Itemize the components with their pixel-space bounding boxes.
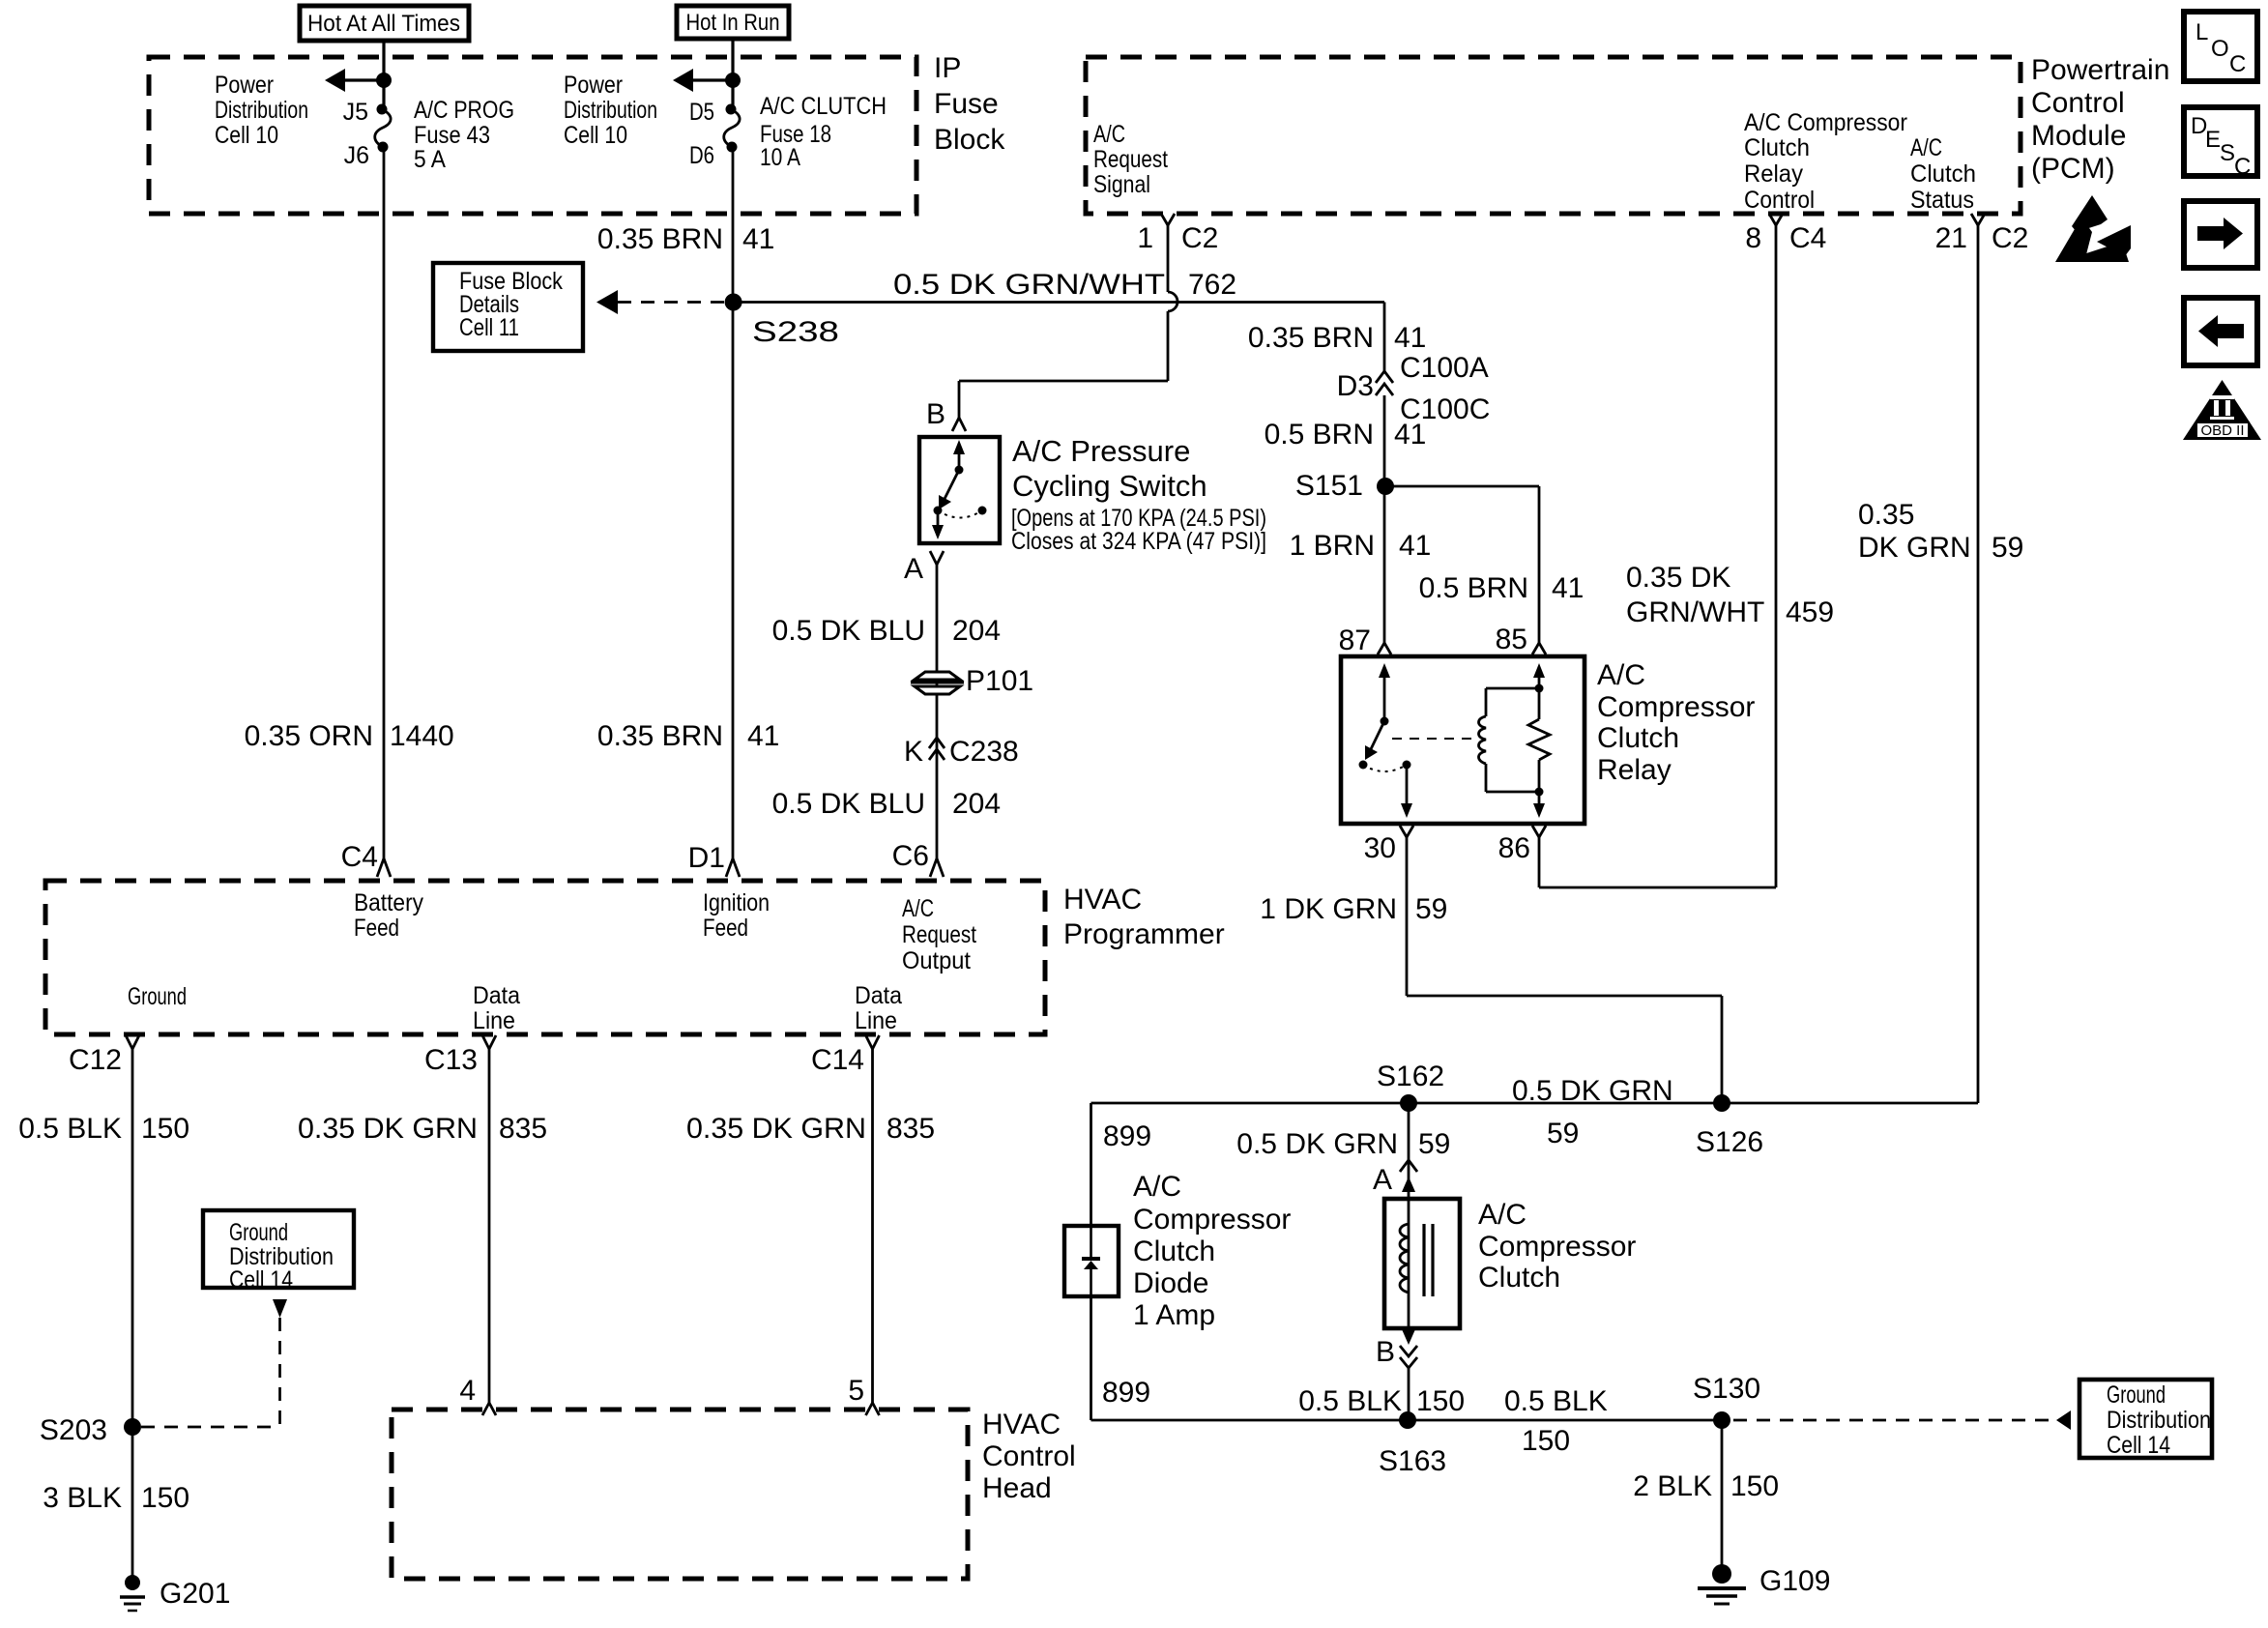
svg-text:1: 1 <box>1137 222 1153 254</box>
svg-text:S151: S151 <box>1295 470 1363 502</box>
svg-text:C: C <box>2229 51 2246 77</box>
svg-text:Programmer: Programmer <box>1063 918 1225 950</box>
svg-text:0.5 BRN: 0.5 BRN <box>1419 572 1528 604</box>
svg-text:S238: S238 <box>752 316 839 348</box>
svg-text:Cycling Switch: Cycling Switch <box>1012 469 1207 503</box>
wire PCM pin1 C2 A/C request signal down with hop over S238 wire <box>959 225 1178 418</box>
connector B arrow and chevrons below clutch <box>1376 1329 1417 1420</box>
pin 8 C4 labels <box>1745 222 1826 254</box>
relay label <box>1597 659 1755 786</box>
PCM name label <box>2031 54 2169 185</box>
svg-text:Request: Request <box>1093 146 1168 173</box>
svg-text:A/C: A/C <box>1597 659 1645 691</box>
A/C Compressor Clutch Diode box <box>1064 1226 1119 1296</box>
wire label 0.5 BRN 41 <box>1265 419 1427 451</box>
node S162 <box>1400 1094 1417 1112</box>
icon DESC box <box>2184 107 2257 180</box>
wire label 3 BLK 150 <box>43 1482 189 1514</box>
svg-text:41: 41 <box>1394 419 1426 451</box>
wire bottom ground bus (0.5 BLK 150) <box>1091 1419 1723 1422</box>
svg-text:B: B <box>926 398 945 430</box>
Power Distribution Cell 10 label (right) <box>564 72 657 149</box>
pin 21 C2 labels <box>1935 222 2029 254</box>
relay pin 86 fork <box>1532 826 1546 837</box>
svg-text:S203: S203 <box>40 1414 107 1446</box>
svg-text:1 Amp: 1 Amp <box>1133 1299 1215 1331</box>
svg-text:41: 41 <box>742 223 774 255</box>
svg-text:86: 86 <box>1498 832 1530 864</box>
wire PCM pin 21 C2 down (0.35 DK GRN 59) <box>1977 225 1980 1103</box>
svg-text:C12: C12 <box>69 1044 122 1076</box>
node S126 <box>1713 1094 1730 1112</box>
svg-text:A/C: A/C <box>1478 1199 1527 1231</box>
svg-text:899: 899 <box>1103 1120 1151 1152</box>
wire 41 from C100 down to S151 <box>1383 395 1386 486</box>
svg-text:0.5 BLK: 0.5 BLK <box>1504 1385 1608 1417</box>
wire pressure switch A down to C6 (0.5 DK BLU 204) <box>936 565 939 858</box>
svg-text:A/C Pressure: A/C Pressure <box>1012 434 1190 468</box>
svg-text:0.35 BRN: 0.35 BRN <box>1248 322 1374 354</box>
svg-text:Power: Power <box>215 72 274 99</box>
svg-text:Compressor: Compressor <box>1133 1204 1291 1236</box>
svg-text:Cell 14: Cell 14 <box>229 1266 293 1294</box>
wire label 0.5 DK GRN 59 (bus) <box>1512 1075 1673 1149</box>
svg-text:J5: J5 <box>343 99 368 126</box>
wire 41 from S238 junction down to D3 <box>1383 303 1386 373</box>
relay resistor <box>1528 663 1550 818</box>
svg-text:0.5 BLK: 0.5 BLK <box>18 1113 122 1145</box>
A/C Compressor Clutch Relay box <box>1341 656 1585 824</box>
svg-text:835: 835 <box>499 1113 547 1145</box>
node S203 <box>124 1418 141 1436</box>
A/C Pressure Cycling Switch label <box>1011 434 1266 555</box>
wire label 0.35 BRN 41 (above S238) <box>597 223 774 255</box>
PCM A/C Request Signal label <box>1093 121 1168 198</box>
HVAC Control Head dashed box <box>392 1410 968 1579</box>
icon LOC box <box>2184 12 2257 81</box>
svg-text:(PCM): (PCM) <box>2031 153 2115 185</box>
svg-text:30: 30 <box>1364 832 1396 864</box>
svg-text:Distribution: Distribution <box>2107 1407 2211 1434</box>
svg-text:C: C <box>2234 154 2251 180</box>
node junction at right arrow <box>725 73 741 88</box>
wire from Hot In Run into fuse block <box>731 39 734 109</box>
svg-text:E: E <box>2205 127 2221 153</box>
svg-text:3 BLK: 3 BLK <box>43 1482 122 1514</box>
svg-text:835: 835 <box>887 1113 935 1145</box>
dashed reference arrow S238 to Fuse Block Details <box>596 290 724 314</box>
Fuse Block Details Cell 11 box <box>433 263 583 351</box>
svg-text:OBD II: OBD II <box>2200 422 2244 439</box>
svg-text:150: 150 <box>1730 1470 1779 1502</box>
wire label 0.5 DK BLU 204 (upper) <box>772 615 1001 647</box>
svg-text:204: 204 <box>952 788 1001 820</box>
HVAC Programmer pin function labels <box>354 889 423 942</box>
wire S130 down to G109 (2 BLK 150) <box>1721 1420 1724 1574</box>
svg-text:Closes at 324 KPA (47 PSI)]: Closes at 324 KPA (47 PSI)] <box>1011 528 1266 555</box>
svg-text:Feed: Feed <box>354 915 399 942</box>
svg-text:0.35 DK: 0.35 DK <box>1626 562 1730 594</box>
wire from Hot At All Times into fuse block <box>382 41 385 109</box>
node S151 <box>1377 478 1394 495</box>
svg-text:150: 150 <box>141 1482 189 1514</box>
svg-text:Ignition: Ignition <box>703 889 770 916</box>
svg-text:G201: G201 <box>160 1578 230 1610</box>
wire label 0.35 DK GRN 835 <box>298 1113 547 1145</box>
wire label 0.35 BRN 41 (below S238) <box>597 720 779 752</box>
wire label 2 BLK 150 <box>1633 1470 1779 1502</box>
pin 1 C2 connector fork <box>1161 214 1175 225</box>
svg-text:Fuse: Fuse <box>934 88 999 120</box>
svg-text:J6: J6 <box>344 142 369 169</box>
wire label 0.5 BLK 150 (left of S163) <box>1298 1385 1465 1417</box>
svg-text:41: 41 <box>1552 572 1584 604</box>
svg-text:41: 41 <box>1394 322 1426 354</box>
relay pin 87 fork <box>1378 643 1391 654</box>
svg-text:S130: S130 <box>1693 1373 1760 1405</box>
label box Hot At All Times <box>300 6 469 41</box>
Ground Distribution Cell 14 box (left) <box>203 1210 354 1294</box>
wire label 0.5 BLK 150 (right of S163) <box>1504 1385 1608 1457</box>
svg-text:Relay: Relay <box>1744 160 1803 188</box>
svg-text:Control: Control <box>2031 87 2125 119</box>
svg-text:O: O <box>2211 36 2229 62</box>
svg-text:59: 59 <box>1992 532 2023 564</box>
svg-text:Line: Line <box>473 1007 515 1034</box>
svg-text:G109: G109 <box>1759 1565 1830 1597</box>
svg-text:S126: S126 <box>1696 1126 1763 1158</box>
svg-text:Clutch: Clutch <box>1478 1262 1560 1294</box>
relay coil <box>1479 688 1540 792</box>
svg-text:A/C: A/C <box>1133 1171 1181 1203</box>
svg-text:0.5 DK GRN/WHT: 0.5 DK GRN/WHT <box>893 269 1165 301</box>
svg-text:2 BLK: 2 BLK <box>1633 1470 1712 1502</box>
wire label 0.5 BLK 150 <box>18 1113 189 1145</box>
A/C Pressure Cycling Switch box <box>919 437 1000 543</box>
svg-text:5: 5 <box>848 1375 864 1407</box>
svg-text:Request: Request <box>902 921 976 948</box>
svg-text:C13: C13 <box>424 1044 478 1076</box>
svg-text:Battery: Battery <box>354 889 423 916</box>
svg-text:0.35: 0.35 <box>1858 499 1914 531</box>
grommet P101 <box>911 665 1033 697</box>
svg-text:10 A: 10 A <box>760 144 800 171</box>
arrow to Power Distribution (left) <box>325 69 384 92</box>
ground G109 <box>1698 1564 1830 1604</box>
svg-text:Control: Control <box>1744 187 1815 214</box>
svg-text:Line: Line <box>855 1007 897 1034</box>
svg-text:0.35 ORN: 0.35 ORN <box>245 720 373 752</box>
svg-text:85: 85 <box>1496 624 1527 655</box>
svg-text:150: 150 <box>141 1113 189 1145</box>
wire S238 to pressure switch feed (horizontal) <box>734 301 1384 304</box>
svg-text:GRN/WHT: GRN/WHT <box>1626 596 1764 628</box>
dashed reference from S203 to Ground Distribution box <box>141 1299 287 1427</box>
relay switch contacts <box>1359 663 1413 818</box>
connector B fork at pressure switch <box>952 418 966 431</box>
svg-text:0.35 BRN: 0.35 BRN <box>597 720 723 752</box>
svg-text:Cell 11: Cell 11 <box>459 314 519 341</box>
svg-text:5 A: 5 A <box>414 146 446 173</box>
svg-text:A/C PROG: A/C PROG <box>414 97 514 124</box>
icon OBD II triangle <box>2183 380 2261 440</box>
wire label 0.5 BRN 41 (branch) <box>1419 572 1585 604</box>
IP Fuse Block dashed box <box>149 57 916 214</box>
svg-text:Power: Power <box>564 72 623 99</box>
svg-text:1440: 1440 <box>390 720 454 752</box>
Powertrain Control Module dashed box <box>1086 57 2021 214</box>
node S238 <box>725 294 742 311</box>
svg-text:4: 4 <box>459 1375 476 1407</box>
connector C12 fork below HVAC Programmer <box>126 1035 139 1049</box>
svg-text:Output: Output <box>902 947 971 974</box>
svg-text:HVAC: HVAC <box>1063 884 1142 916</box>
node junction at left arrow <box>376 73 392 88</box>
svg-text:Relay: Relay <box>1597 754 1672 786</box>
relay pin 85 fork <box>1532 643 1546 654</box>
wire C13 data line down to pin 4 (0.35 DK GRN 835) <box>488 1049 491 1403</box>
svg-text:150: 150 <box>1522 1425 1570 1457</box>
connector pin 5 fork into HVAC Control Head <box>866 1403 880 1415</box>
svg-text:8: 8 <box>1745 222 1761 254</box>
svg-text:0.5 DK BLU: 0.5 DK BLU <box>772 788 925 820</box>
svg-text:1 BRN: 1 BRN <box>1290 530 1375 562</box>
svg-text:0.35 BRN: 0.35 BRN <box>597 223 723 255</box>
svg-text:C238: C238 <box>949 736 1019 768</box>
svg-text:204: 204 <box>952 615 1001 647</box>
svg-text:Ground: Ground <box>229 1219 288 1246</box>
svg-text:Powertrain: Powertrain <box>2031 54 2169 86</box>
connector C14 fork below HVAC Programmer <box>866 1035 880 1049</box>
svg-text:A/C CLUTCH: A/C CLUTCH <box>760 93 887 120</box>
svg-text:C4: C4 <box>1789 222 1826 254</box>
pin 8 C4 connector fork <box>1769 214 1783 225</box>
wire label 0.35 DK GRN 835 (right) <box>686 1113 935 1145</box>
HVAC Programmer dashed box <box>45 881 1045 1034</box>
svg-text:41: 41 <box>747 720 779 752</box>
svg-text:A: A <box>904 553 923 585</box>
svg-text:A/C Compressor: A/C Compressor <box>1744 109 1907 136</box>
wire C12 ground down to G201 (0.5 BLK 150) <box>131 1049 134 1583</box>
ESD sensitivity symbol <box>2055 195 2131 262</box>
svg-text:S: S <box>2220 140 2235 166</box>
svg-text:Control: Control <box>982 1440 1076 1472</box>
wire label 0.35 DK GRN/WHT 459 <box>1626 562 1834 628</box>
fuse F43 A/C PROG (J5-J6) <box>375 104 391 153</box>
HVAC Control Head name label <box>982 1409 1076 1504</box>
A/C Compressor Clutch box <box>1384 1199 1460 1328</box>
svg-text:Clutch: Clutch <box>1744 134 1810 161</box>
svg-text:Ground: Ground <box>128 983 187 1010</box>
svg-text:A/C: A/C <box>902 895 934 922</box>
svg-text:Cell 10: Cell 10 <box>564 122 627 149</box>
relay mechanical link dashed <box>1392 738 1473 740</box>
svg-text:Compressor: Compressor <box>1478 1231 1636 1263</box>
PCM A/C Clutch Status label <box>1910 134 1976 214</box>
PCM A/C Compressor Clutch Relay Control label <box>1744 109 1907 214</box>
wire A/C CLUTCH fuse output down to D1 (0.35 BRN 41) <box>732 147 735 858</box>
svg-text:Ground: Ground <box>2107 1381 2166 1409</box>
pressure switch internal contacts <box>932 440 987 539</box>
pin 1 C2 labels <box>1137 222 1218 254</box>
svg-text:0.35 DK GRN: 0.35 DK GRN <box>686 1113 866 1145</box>
svg-text:Clutch: Clutch <box>1910 160 1976 188</box>
svg-text:Compressor: Compressor <box>1597 691 1755 723</box>
wire C14 data line down to pin 5 (0.35 DK GRN 835) <box>871 1049 874 1403</box>
svg-text:Clutch: Clutch <box>1597 722 1679 754</box>
ground G201 <box>120 1575 230 1611</box>
svg-text:P101: P101 <box>966 665 1033 697</box>
svg-text:0.5 DK GRN: 0.5 DK GRN <box>1512 1075 1673 1107</box>
connector pin 4 fork into HVAC Control Head <box>482 1403 496 1415</box>
connector C4 fork into HVAC Programmer <box>377 858 391 877</box>
svg-text:87: 87 <box>1339 625 1371 656</box>
svg-text:41: 41 <box>1399 530 1431 562</box>
svg-text:C100A: C100A <box>1400 352 1489 384</box>
svg-text:A/C: A/C <box>1910 134 1942 161</box>
arrow to Power Distribution (right) <box>673 69 733 92</box>
svg-text:D3: D3 <box>1337 370 1374 402</box>
svg-text:Fuse 43: Fuse 43 <box>414 122 490 149</box>
wire diode branch 899 (left) <box>1090 1103 1092 1420</box>
svg-text:21: 21 <box>1935 222 1967 254</box>
fuse F18 A/C CLUTCH (D5-D6) <box>724 104 740 153</box>
svg-text:59: 59 <box>1418 1128 1450 1160</box>
svg-text:0.5 DK GRN: 0.5 DK GRN <box>1236 1128 1398 1160</box>
svg-text:Feed: Feed <box>703 915 748 942</box>
svg-text:0.5 BLK: 0.5 BLK <box>1298 1385 1402 1417</box>
svg-text:59: 59 <box>1415 893 1447 925</box>
fuse F43 value label <box>414 97 514 173</box>
svg-text:DK GRN: DK GRN <box>1858 532 1971 564</box>
wire horizontal bus S162/S126 (0.5 DK GRN 59) <box>1091 1102 1979 1105</box>
svg-text:C6: C6 <box>892 840 929 872</box>
label box Hot In Run <box>677 6 789 39</box>
HVAC Programmer name label <box>1063 884 1225 950</box>
A/C Compressor Clutch label <box>1478 1199 1636 1294</box>
svg-text:HVAC: HVAC <box>982 1409 1061 1440</box>
svg-text:Data: Data <box>473 982 520 1009</box>
wire S151 down to relay pin 87 (1 BRN 41) <box>1383 486 1386 643</box>
icon forward arrow box <box>2184 201 2257 268</box>
svg-text:C14: C14 <box>811 1044 864 1076</box>
svg-text:A/C: A/C <box>1093 121 1125 148</box>
icon back arrow box <box>2184 298 2257 365</box>
clutch coil and plates <box>1400 1199 1433 1328</box>
svg-text:762: 762 <box>1188 269 1236 301</box>
Power Distribution Cell 10 label (left) <box>215 72 308 149</box>
svg-text:K: K <box>904 736 923 768</box>
svg-text:D5: D5 <box>689 99 714 126</box>
svg-text:459: 459 <box>1786 596 1834 628</box>
svg-text:A: A <box>1373 1164 1392 1196</box>
connector D3 C100A/C100C chevrons <box>1337 352 1491 425</box>
connector C6 fork into HVAC Programmer <box>930 858 944 877</box>
connector A fork below pressure switch <box>930 551 944 565</box>
svg-text:Module: Module <box>2031 120 2126 152</box>
svg-text:C4: C4 <box>341 841 378 873</box>
svg-text:Hot In Run: Hot In Run <box>686 10 780 36</box>
svg-text:Block: Block <box>934 124 1005 156</box>
svg-text:Diode: Diode <box>1133 1267 1208 1299</box>
svg-text:L: L <box>2195 19 2208 45</box>
wire PCM pin 8 C4 down-left to relay pin 86 (0.35 DK GRN/WHT 459) <box>1539 225 1776 887</box>
svg-text:S163: S163 <box>1379 1445 1446 1477</box>
node S163 <box>1399 1411 1416 1429</box>
pin 21 C2 connector fork <box>1971 214 1985 225</box>
svg-text:D1: D1 <box>688 842 725 874</box>
svg-text:Distribution: Distribution <box>215 97 308 124</box>
svg-text:IP: IP <box>934 52 961 84</box>
svg-text:Cell 10: Cell 10 <box>215 122 278 149</box>
wire label 0.5 DK GRN/WHT 762 <box>893 269 1236 301</box>
svg-text:59: 59 <box>1547 1118 1579 1149</box>
diode symbol <box>1082 1226 1100 1296</box>
wire label 0.5 DK BLU 204 (lower) <box>772 788 1001 820</box>
IP Fuse Block name label <box>934 52 1005 156</box>
svg-text:150: 150 <box>1416 1385 1465 1417</box>
svg-text:C2: C2 <box>1992 222 2028 254</box>
svg-text:D6: D6 <box>689 142 714 169</box>
svg-text:Status: Status <box>1910 187 1974 214</box>
svg-text:0.35 DK GRN: 0.35 DK GRN <box>298 1113 478 1145</box>
wire label 1 BRN 41 <box>1290 530 1432 562</box>
wire A/C PROG fuse output down to C4 (0.35 ORN 1440) <box>383 147 386 858</box>
wire label 0.35 BRN 41 (at C100A) <box>1248 322 1426 354</box>
svg-text:Head: Head <box>982 1472 1052 1504</box>
wire S151 branch right and down to relay pin 85 (0.5 BRN 41) <box>1385 486 1539 643</box>
wire label 0.35 ORN 1440 <box>245 720 454 752</box>
svg-text:B: B <box>1376 1336 1395 1368</box>
svg-text:Distribution: Distribution <box>564 97 657 124</box>
wire relay pin 30 down to junction (1 DK GRN 59) <box>1407 837 1722 1103</box>
svg-text:Clutch: Clutch <box>1133 1236 1215 1267</box>
svg-text:0.5 BRN: 0.5 BRN <box>1265 419 1374 451</box>
relay pin 30 fork <box>1400 826 1413 837</box>
svg-text:899: 899 <box>1102 1377 1150 1409</box>
diode label <box>1133 1171 1291 1331</box>
svg-text:0.5 DK BLU: 0.5 DK BLU <box>772 615 925 647</box>
wire label 0.35 DK GRN 59 <box>1858 499 2023 564</box>
svg-text:Signal: Signal <box>1093 171 1150 198</box>
svg-text:1 DK GRN: 1 DK GRN <box>1260 893 1397 925</box>
svg-text:Data: Data <box>855 982 902 1009</box>
dashed reference S130 to Ground Distribution box with arrow <box>1733 1410 2071 1430</box>
fuse F18 value label <box>760 93 887 171</box>
node S130 <box>1713 1411 1730 1429</box>
svg-text:Hot At All Times: Hot At All Times <box>307 11 460 37</box>
wire label 0.5 DK GRN 59 (clutch feed) <box>1236 1128 1450 1160</box>
svg-text:C2: C2 <box>1181 222 1218 254</box>
connector A chevrons and arrow at clutch <box>1373 1160 1417 1196</box>
Ground Distribution Cell 14 box (right) <box>2079 1380 2212 1459</box>
connector K C238 chevrons <box>904 736 1019 768</box>
connector C13 fork below HVAC Programmer <box>482 1035 496 1049</box>
svg-text:S162: S162 <box>1377 1061 1444 1092</box>
svg-text:Cell 14: Cell 14 <box>2107 1432 2170 1459</box>
wire S162 down to clutch A (0.5 DK GRN 59) <box>1408 1103 1410 1199</box>
wire label 1 DK GRN 59 <box>1260 893 1447 925</box>
connector D1 fork into HVAC Programmer <box>726 858 740 877</box>
